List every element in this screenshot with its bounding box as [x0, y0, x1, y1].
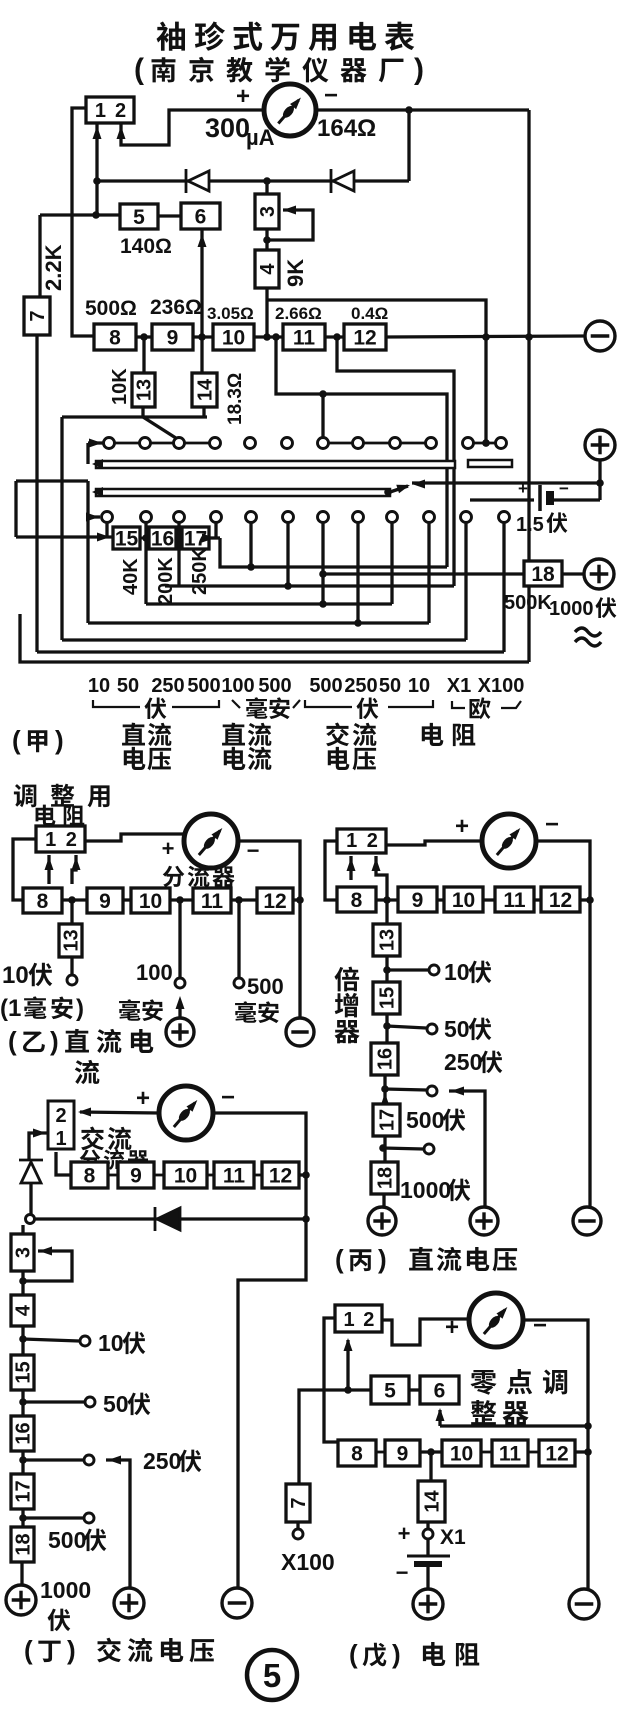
svg-text:9K: 9K [283, 259, 308, 287]
terminal minus (B) [286, 1018, 314, 1046]
wire R3-R4 [21, 1271, 24, 1295]
label voltage [328, 747, 376, 770]
svg-text:+: + [162, 836, 175, 861]
wire R17-R18 [21, 1509, 24, 1527]
resistor 6 [181, 203, 220, 229]
svg-text:18: 18 [375, 1167, 397, 1189]
resistor 8 [94, 324, 136, 350]
wire [267, 300, 486, 443]
wire row1 link [364, 442, 389, 445]
wire R4-R15 [21, 1326, 24, 1355]
svg-text:−: − [396, 1560, 409, 1585]
svg-text:(: ( [349, 1639, 358, 1669]
wire arrow into pin1 [47, 855, 50, 884]
svg-text:500: 500 [309, 675, 342, 697]
wire contact drop [177, 523, 180, 586]
junction [584, 1422, 592, 1430]
wire [172, 700, 219, 707]
wire [305, 700, 352, 707]
resistor 10 [131, 888, 170, 913]
resistor 10 [444, 887, 483, 912]
arrowhead [372, 858, 381, 871]
switch contact [141, 512, 152, 523]
terminal plus (switch common) [585, 430, 615, 460]
svg-text:12: 12 [269, 1165, 292, 1188]
label current [224, 747, 272, 770]
wire R17-R18 [383, 1136, 386, 1162]
terminal block 2/1 (D) [48, 1101, 74, 1150]
svg-text:12: 12 [549, 889, 572, 912]
contact 250V [84, 1455, 94, 1465]
wire [388, 700, 433, 707]
arrowhead [39, 1247, 52, 1256]
junction [354, 619, 362, 627]
svg-text:9: 9 [397, 1443, 409, 1466]
wire [267, 210, 313, 240]
wire box to meter [386, 841, 482, 845]
switch contact [318, 512, 329, 523]
resistor 12 [262, 1162, 299, 1188]
arrowhead [86, 513, 99, 522]
junction [427, 1448, 435, 1456]
svg-text:13: 13 [134, 379, 156, 401]
resistor 12 [539, 1440, 575, 1466]
resistor 17 [373, 1104, 400, 1136]
wire box to diode [29, 1133, 48, 1160]
wire R7 tail [296, 1522, 299, 1528]
wire 500V tap [383, 1148, 423, 1149]
wire R8-R9 [136, 335, 152, 338]
svg-text:): ) [50, 1026, 59, 1056]
wire pin2 to meter [121, 110, 264, 145]
svg-text:250: 250 [143, 1448, 181, 1474]
wire tap to contact row1 [321, 394, 324, 437]
wire [390, 486, 408, 492]
switch contact [353, 438, 364, 449]
svg-text:X100: X100 [478, 675, 525, 697]
diode D3 [155, 1207, 180, 1231]
arrowhead [381, 1093, 390, 1106]
label DC [222, 723, 271, 746]
svg-text:1: 1 [45, 829, 56, 851]
switch contact [246, 512, 257, 523]
svg-text:100: 100 [136, 960, 173, 985]
svg-text:(: ( [12, 725, 21, 755]
resistor 9 [398, 887, 437, 912]
svg-text:6: 6 [434, 1380, 446, 1403]
terminal plus 1000V (D) [6, 1585, 36, 1615]
switch contact [210, 438, 221, 449]
resistor 16 [149, 527, 176, 551]
wire [438, 1410, 441, 1426]
wire [337, 337, 454, 586]
wire nested bus 7 (outer) [20, 614, 529, 662]
resistor 18 [371, 1162, 398, 1194]
rotary switch wiper bar 1 [96, 461, 455, 468]
wire row1 link [185, 442, 209, 445]
svg-text:−: − [221, 1084, 235, 1111]
label mA [119, 999, 163, 1021]
wire nested bus 5 [62, 638, 466, 641]
svg-text:8: 8 [351, 1443, 363, 1466]
wire 10V tap [23, 1339, 79, 1341]
wire diode row [97, 179, 409, 182]
wire R16-R17 [176, 537, 182, 540]
svg-text:+: + [398, 1521, 411, 1546]
label mA [235, 1001, 279, 1023]
junction [344, 1386, 352, 1394]
resistor 3 [255, 194, 279, 229]
junction [482, 439, 490, 447]
junction [383, 896, 391, 904]
terminal minus (C) [573, 1207, 601, 1235]
svg-text:): ) [392, 1639, 401, 1669]
wire R16-R17 [383, 1075, 386, 1104]
wire contact drop [105, 523, 108, 537]
svg-text:1: 1 [55, 1128, 66, 1150]
junction [263, 177, 271, 185]
svg-text:): ) [55, 725, 64, 755]
resistor 18 [524, 561, 562, 586]
svg-text:500: 500 [406, 1107, 444, 1133]
wire 50V tap [387, 1026, 426, 1028]
switch contact [499, 512, 510, 523]
svg-text:(: ( [335, 1244, 344, 1274]
resistor 12 [257, 888, 293, 913]
wire R6 to bus to R14 [200, 229, 203, 373]
meter M2 [184, 814, 238, 868]
wire R11-R12 [254, 1174, 262, 1177]
terminal plus 1000V (C) [368, 1207, 396, 1235]
svg-text:15: 15 [115, 528, 139, 551]
svg-text:10: 10 [174, 1165, 197, 1188]
wire nested bus 4 [88, 621, 429, 624]
junction [525, 333, 533, 341]
label DC [122, 723, 171, 746]
label zero adjust line2 [471, 1400, 529, 1425]
wire left riser 3 [60, 417, 63, 640]
wire left loop vert [14, 481, 17, 537]
svg-text:4: 4 [13, 1304, 35, 1316]
svg-text:2.2K: 2.2K [41, 244, 66, 291]
switch contact [463, 438, 474, 449]
resistor 13 [59, 924, 83, 957]
wire to R3 [265, 181, 268, 194]
svg-text:250: 250 [344, 675, 377, 697]
wire [276, 337, 447, 567]
wire to R14 [429, 1452, 432, 1481]
svg-text:2: 2 [115, 100, 126, 122]
svg-text:11: 11 [503, 889, 526, 912]
svg-text:+: + [455, 813, 469, 840]
switch contact [282, 438, 293, 449]
wire contact drop [214, 523, 217, 537]
arrowhead [283, 206, 296, 215]
svg-text:2: 2 [363, 1309, 374, 1331]
svg-text:5: 5 [263, 1657, 281, 1694]
svg-text:11: 11 [293, 327, 316, 350]
svg-text:9: 9 [167, 327, 179, 350]
wire to 100mA contact [178, 900, 181, 977]
switch contact [245, 438, 256, 449]
wire meter right down [523, 1320, 588, 1589]
rotary switch wiper bar 2 [96, 489, 390, 496]
svg-text:−: − [533, 1312, 547, 1339]
svg-text:200K: 200K [155, 557, 177, 605]
wire R8 to box1 [56, 1152, 71, 1175]
junction [405, 106, 413, 114]
label adjust resistor line1 [14, 784, 110, 808]
wire [449, 1091, 485, 1207]
contact 250V [427, 1086, 437, 1096]
contact 50V [85, 1397, 95, 1407]
svg-text:(: ( [8, 1026, 17, 1056]
svg-text:2: 2 [55, 1105, 66, 1127]
wire R9-R10 [123, 898, 131, 901]
svg-text:8: 8 [37, 890, 49, 913]
svg-text:−: − [324, 82, 338, 109]
svg-text:14: 14 [422, 1490, 444, 1513]
wire box left to R8 [324, 1318, 338, 1442]
svg-text:2: 2 [367, 830, 378, 852]
svg-text:50: 50 [379, 675, 401, 697]
wire R11-R12 [325, 335, 344, 338]
wire rail down to diode row [407, 110, 410, 181]
switch contact [174, 438, 185, 449]
switch contact [318, 438, 329, 449]
wire 250V tap [23, 1458, 83, 1461]
arrowhead [78, 1108, 91, 1117]
resistor 9 [87, 888, 123, 913]
switch contact [353, 512, 364, 523]
label adjust resistor line2 [36, 805, 85, 826]
wire meter to right rail [316, 108, 529, 111]
resistor 11 [283, 324, 325, 350]
wire box1 left to bus [72, 108, 94, 336]
svg-text:50: 50 [103, 1391, 129, 1417]
resistor 8 [337, 887, 376, 912]
resistor 8 [71, 1162, 108, 1188]
terminal plus 1000V [584, 559, 614, 589]
resistor 9 [385, 1440, 420, 1466]
wire R8-R9 [62, 898, 87, 901]
arrowhead [202, 534, 215, 543]
svg-text:11: 11 [201, 890, 224, 913]
svg-text:+: + [136, 1085, 150, 1112]
svg-text:17: 17 [13, 1480, 35, 1502]
svg-text:18: 18 [13, 1533, 35, 1555]
wire diagonal to contact [143, 417, 179, 440]
contact 500V [84, 1513, 94, 1523]
wire battery to terminal [426, 1567, 429, 1589]
wire R15-R16 [140, 537, 149, 540]
svg-text:250: 250 [444, 1049, 482, 1075]
arrowhead [108, 1456, 121, 1465]
wire R9-R10 [437, 898, 444, 901]
label AC symbol [575, 628, 601, 646]
svg-text:15: 15 [377, 987, 399, 1009]
svg-text:7: 7 [27, 310, 49, 321]
junction [247, 563, 255, 571]
wire meter right down [213, 1113, 306, 1219]
svg-text:50: 50 [444, 1016, 470, 1042]
arrowhead [344, 1338, 353, 1351]
terminal plus 250V (C) [470, 1207, 498, 1235]
wire R7 down to bus [35, 335, 38, 652]
wire [232, 700, 240, 708]
junction [319, 600, 327, 608]
svg-text:1: 1 [346, 830, 357, 852]
wire row1 link [329, 442, 352, 445]
svg-text:500: 500 [187, 675, 220, 697]
junction [379, 1144, 387, 1152]
wire [376, 856, 387, 901]
wire [238, 1219, 306, 1588]
resistor 10 [442, 1440, 481, 1466]
wire row3 entry [88, 515, 100, 518]
wire R18 to terminal [562, 572, 584, 575]
wire row1 link [115, 442, 139, 445]
arrowhead [92, 487, 103, 497]
junction [263, 333, 271, 341]
svg-text:X1: X1 [447, 675, 471, 697]
junction [302, 1215, 310, 1223]
wire R12 out [293, 898, 300, 901]
svg-text:): ) [414, 53, 424, 86]
meter M3 [482, 814, 536, 868]
switch contact [387, 512, 398, 523]
junction [584, 1448, 592, 1456]
junction [384, 488, 392, 496]
svg-text:500: 500 [48, 1527, 86, 1553]
resistor 16 [11, 1416, 35, 1451]
meter M5 [469, 1293, 523, 1347]
wire left loop to R15 [16, 535, 113, 538]
terminal minus (D) [222, 1588, 252, 1618]
arrowhead [92, 459, 103, 469]
wire [346, 1340, 349, 1390]
svg-text:µA: µA [246, 125, 275, 150]
arrowhead [347, 858, 356, 871]
junction [596, 479, 604, 487]
resistor 14 [418, 1481, 445, 1522]
wire [80, 1112, 159, 1113]
wire [293, 700, 300, 708]
page number circle 5 [247, 1650, 297, 1700]
arrowhead [396, 481, 411, 494]
wire R15-R16 [385, 1014, 388, 1043]
svg-text:17: 17 [377, 1109, 399, 1131]
resistor 15 [373, 982, 400, 1014]
terminal minus (E) [569, 1589, 599, 1619]
wire R10-R11 [170, 898, 193, 901]
resistor 5 [120, 204, 158, 229]
junction [19, 1514, 27, 1522]
label multiplier [334, 967, 359, 1044]
junction [176, 896, 184, 904]
wire R9-R10 [193, 335, 213, 338]
wire R10-R11 [207, 1174, 214, 1177]
wire to R13 [385, 900, 388, 924]
wire 500V tap [23, 1516, 83, 1519]
wire R18 to terminal [20, 1562, 23, 1585]
wire R5-R6 [158, 214, 181, 217]
wire meter down right [536, 841, 590, 1207]
terminal plus (E) [413, 1589, 443, 1619]
title line 1 [156, 21, 414, 50]
resistor 3 [11, 1234, 35, 1271]
switch contact [390, 438, 401, 449]
wire R15-R16 [21, 1390, 24, 1416]
wire contact drop [502, 523, 505, 652]
svg-text:1000: 1000 [40, 1577, 91, 1603]
junction [198, 333, 206, 341]
wire R4 to bus [265, 288, 268, 337]
resistor 11 [214, 1162, 254, 1188]
switch contact [424, 512, 435, 523]
svg-text:500K: 500K [504, 592, 552, 614]
meter M4 [159, 1086, 213, 1140]
svg-text:8: 8 [84, 1165, 96, 1188]
resistor 12 [344, 324, 386, 350]
switch contact [102, 512, 113, 523]
svg-text:X100: X100 [281, 1549, 335, 1575]
svg-text:1: 1 [95, 100, 106, 122]
contact x1 [423, 1529, 433, 1539]
wire box left to R8 [13, 839, 36, 900]
junction [482, 439, 490, 447]
svg-text:40K: 40K [120, 558, 142, 595]
resistor 17 [182, 527, 209, 551]
contact 10V/1mA [67, 975, 77, 985]
junction [140, 333, 148, 341]
terminal plus 250V (D) [114, 1588, 144, 1618]
svg-text:−: − [559, 479, 569, 498]
wire nested bus 1 [220, 538, 447, 567]
wire [501, 701, 521, 708]
wire corner to wiper bar1 [86, 443, 89, 464]
junction [381, 1085, 389, 1093]
junction [68, 896, 76, 904]
wire [452, 701, 465, 708]
wire R13 tail [141, 407, 144, 417]
svg-text:): ) [378, 1244, 387, 1274]
junction [319, 390, 327, 398]
svg-text:500: 500 [258, 675, 291, 697]
switch contact [104, 438, 115, 449]
wire meter to minus terminal [238, 841, 300, 1018]
svg-text:236Ω: 236Ω [150, 296, 202, 319]
svg-text:7: 7 [288, 1497, 310, 1508]
junction [19, 1456, 27, 1464]
svg-text:+: + [236, 83, 250, 110]
terminal block 1 2 (E) [335, 1305, 382, 1332]
contact 10V [429, 965, 439, 975]
svg-text:): ) [76, 995, 84, 1022]
svg-text:300: 300 [205, 113, 250, 143]
contact 10V [80, 1336, 90, 1346]
svg-text:10: 10 [408, 675, 430, 697]
wire [88, 441, 103, 444]
label resistance [422, 723, 475, 746]
junction [333, 333, 341, 341]
wire [23, 1251, 72, 1281]
svg-text:1000: 1000 [549, 598, 594, 620]
svg-text:0.4Ω: 0.4Ω [351, 304, 388, 323]
svg-text:12: 12 [263, 890, 286, 913]
wire nested bus 6 [37, 650, 504, 653]
wire terminal stem [598, 460, 601, 500]
